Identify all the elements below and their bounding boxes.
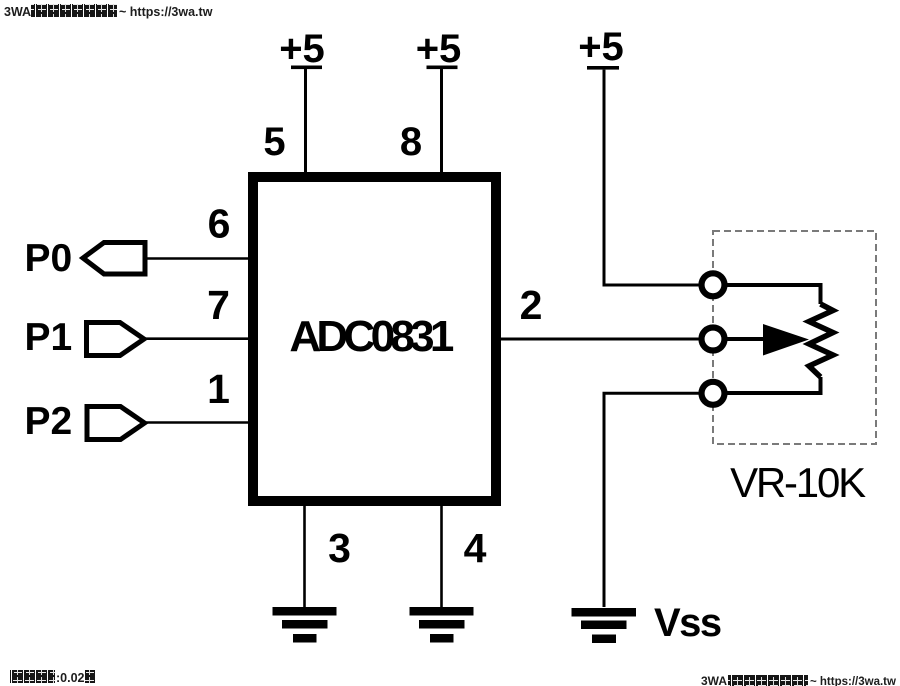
watermark bottom-left "載入時間:0.02 秒" xyxy=(10,670,96,685)
pot wiper wire xyxy=(725,337,766,341)
svg-text::0.02: :0.02 xyxy=(56,671,85,685)
wire Vss from pot bottom terminal to ground xyxy=(604,393,701,607)
pot resistor zigzag xyxy=(809,304,833,377)
svg-text:P2: P2 xyxy=(25,400,73,443)
svg-text:3WA: 3WA xyxy=(4,5,31,19)
svg-text:P0: P0 xyxy=(25,237,73,280)
wire pin4 to ground xyxy=(440,501,443,607)
svg-text:+5: +5 xyxy=(279,27,325,71)
svg-text:7: 7 xyxy=(207,282,230,328)
svg-text:~ https://3wa.tw: ~ https://3wa.tw xyxy=(810,676,896,686)
pot internal wire bottom xyxy=(725,377,821,393)
power +5 V1 (pin5) xyxy=(279,27,325,177)
svg-text:5: 5 xyxy=(263,120,285,164)
svg-text:VR-10K: VR-10K xyxy=(730,459,866,506)
power +5 V2 (pin8) xyxy=(416,27,462,177)
pot internal wire top xyxy=(725,285,821,304)
pot terminal circle top xyxy=(702,273,725,296)
connector P2 symbol (points right) xyxy=(87,407,145,440)
ground G3 (Vss) xyxy=(572,608,637,643)
svg-text:P1: P1 xyxy=(25,316,73,359)
svg-text:+5: +5 xyxy=(578,25,624,69)
svg-text:ADC0831: ADC0831 xyxy=(289,312,454,361)
wire P0 to pin6 xyxy=(145,257,253,260)
watermark bottom-right "3WA...工作室 ~ https://3wa.tw" xyxy=(701,674,896,686)
power +5 V3 (to potentiometer) xyxy=(578,25,701,285)
connector P0 symbol (points left) xyxy=(83,243,145,275)
IC U1 ADC0831 body xyxy=(253,177,496,501)
ground G2 xyxy=(410,607,474,643)
svg-text:4: 4 xyxy=(464,525,487,571)
svg-text:+5: +5 xyxy=(416,27,462,71)
wire pin2 to potentiometer wiper xyxy=(496,338,701,341)
svg-text:1: 1 xyxy=(207,366,230,412)
svg-text:8: 8 xyxy=(400,120,422,164)
connector P1 symbol (points right) xyxy=(87,323,145,356)
svg-text:2: 2 xyxy=(520,282,543,328)
svg-text:6: 6 xyxy=(208,201,231,247)
watermark top-left "3WA...工作室 ~ https://3wa.tw" xyxy=(4,4,213,19)
svg-text:Vss: Vss xyxy=(654,601,721,645)
svg-text:3: 3 xyxy=(328,525,351,571)
svg-text:~ https://3wa.tw: ~ https://3wa.tw xyxy=(119,5,213,19)
pot terminal circle bottom xyxy=(702,382,725,405)
potentiometer VR1 dashed enclosure xyxy=(713,231,876,444)
pot wiper arrow xyxy=(763,324,809,356)
ground G1 xyxy=(273,607,337,643)
wire P1 to pin7 xyxy=(144,337,253,340)
wire pin3 to ground xyxy=(303,501,306,607)
svg-text:3WA: 3WA xyxy=(701,674,727,686)
wire P2 to pin1 xyxy=(145,421,254,424)
pot terminal circle middle (wiper) xyxy=(702,328,725,351)
